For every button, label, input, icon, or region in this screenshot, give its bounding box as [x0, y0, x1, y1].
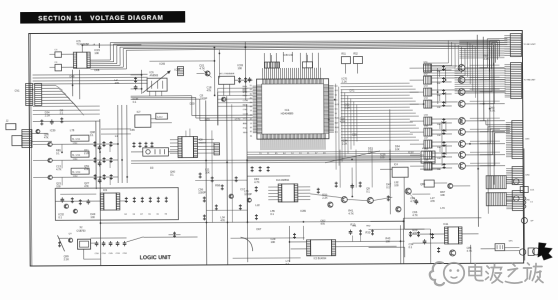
svg-text:0.1: 0.1: [133, 100, 137, 104]
svg-text:0.1: 0.1: [170, 172, 174, 176]
svg-text:IC89: IC89: [300, 209, 306, 213]
svg-text:2.2K: 2.2K: [45, 113, 51, 117]
svg-text:47K: 47K: [115, 81, 120, 85]
svg-text:IC39: IC39: [50, 128, 56, 132]
svg-text:4.7K: 4.7K: [199, 66, 205, 70]
svg-text:D49: D49: [70, 74, 75, 78]
svg-text:R30: R30: [365, 230, 370, 234]
svg-text:RES: RES: [243, 86, 248, 88]
svg-text:2.2K: 2.2K: [322, 196, 328, 200]
svg-text:0.1: 0.1: [386, 185, 390, 189]
svg-text:2.2K: 2.2K: [342, 79, 348, 83]
svg-text:100: 100: [237, 66, 242, 70]
svg-text:TO PA UNIT: TO PA UNIT: [524, 78, 537, 81]
svg-text:IC44: IC44: [174, 68, 180, 72]
svg-text:47K: 47K: [430, 199, 435, 203]
svg-text:RT1 TRIMMER: RT1 TRIMMER: [220, 73, 235, 75]
svg-text:D67: D67: [256, 227, 261, 231]
svg-text:0.1: 0.1: [56, 151, 60, 155]
svg-text:SECTION 11 VOLTAGE DIAGRAM: SECTION 11 VOLTAGE DIAGRAM: [38, 15, 163, 23]
svg-text:SCK: SCK: [335, 104, 340, 106]
svg-text:47K: 47K: [84, 167, 89, 171]
svg-text:OSC: OSC: [243, 109, 248, 111]
svg-text:10K: 10K: [437, 83, 441, 85]
svg-text:0.1: 0.1: [409, 245, 413, 249]
svg-text:2.2K: 2.2K: [483, 57, 489, 61]
svg-text:10K: 10K: [386, 239, 391, 243]
svg-text:47K: 47K: [220, 218, 225, 222]
svg-text:1254: 1254: [72, 143, 78, 145]
svg-text:2.2K: 2.2K: [342, 141, 348, 145]
svg-text:0.1: 0.1: [270, 212, 274, 216]
svg-text:COM: COM: [243, 114, 248, 116]
svg-text:Q55: Q55: [205, 117, 210, 121]
svg-text:10K: 10K: [437, 135, 441, 137]
svg-text:C17: C17: [240, 187, 245, 191]
svg-text:4.7K: 4.7K: [348, 211, 354, 215]
svg-text:2.2K: 2.2K: [64, 257, 70, 261]
svg-text:1000P: 1000P: [244, 192, 252, 196]
svg-text:100: 100: [90, 215, 95, 219]
svg-text:C45 C46: C45 C46: [283, 54, 293, 57]
svg-text:4.7K: 4.7K: [467, 249, 473, 253]
svg-text:0.1: 0.1: [368, 149, 372, 153]
svg-text:1000P: 1000P: [198, 190, 206, 194]
svg-text:C65: C65: [130, 128, 135, 132]
svg-text:1000P: 1000P: [200, 96, 208, 100]
svg-text:10K: 10K: [395, 147, 400, 151]
svg-text:10K: 10K: [271, 240, 276, 244]
svg-text:10K: 10K: [437, 147, 441, 149]
svg-text:RL 1254: RL 1254: [72, 172, 81, 174]
svg-text:1254: 1254: [73, 176, 79, 178]
svg-text:10K: 10K: [437, 124, 441, 126]
svg-text:D3: D3: [150, 166, 154, 170]
svg-text:4.7K: 4.7K: [490, 108, 496, 112]
svg-text:L22: L22: [255, 203, 260, 207]
svg-text:10K: 10K: [437, 169, 441, 171]
svg-text:IC69: IC69: [159, 62, 165, 66]
svg-text:D20: D20: [190, 102, 195, 106]
svg-text:SO: SO: [335, 90, 338, 92]
svg-text:Q86: Q86: [420, 182, 425, 186]
svg-text:R10: R10: [350, 223, 355, 227]
svg-text:RL 1254: RL 1254: [72, 139, 81, 141]
svg-text:IC2 AN6564: IC2 AN6564: [276, 179, 290, 182]
svg-text:CN1: CN1: [15, 90, 20, 93]
svg-text:L74: L74: [440, 206, 445, 210]
svg-text:S-812: S-812: [157, 117, 164, 119]
svg-text:10K: 10K: [437, 107, 441, 109]
svg-text:4.7K: 4.7K: [254, 180, 260, 184]
svg-text:IC3 BU4094: IC3 BU4094: [314, 258, 327, 260]
svg-text:100: 100: [56, 184, 61, 188]
svg-text:IC1: IC1: [285, 108, 290, 112]
svg-text:D68: D68: [94, 68, 99, 72]
svg-text:CSB750: CSB750: [76, 230, 86, 233]
svg-text:IC13: IC13: [408, 150, 414, 154]
svg-text:10K: 10K: [440, 193, 445, 197]
svg-text:0.1: 0.1: [90, 133, 94, 137]
svg-text:1254: 1254: [73, 159, 79, 161]
svg-text:R52: R52: [353, 53, 358, 56]
svg-text:2.2K: 2.2K: [345, 105, 351, 109]
svg-text:IC11: IC11: [443, 223, 449, 226]
svg-text:47K: 47K: [320, 222, 325, 226]
svg-text:10K: 10K: [437, 158, 441, 160]
svg-text:0.1: 0.1: [60, 111, 64, 115]
svg-text:4.7K: 4.7K: [340, 119, 346, 123]
svg-text:10K: 10K: [205, 170, 210, 174]
svg-text:COM: COM: [243, 100, 248, 102]
svg-text:0.1: 0.1: [58, 215, 62, 219]
svg-text:L78: L78: [70, 128, 75, 132]
svg-text:47K: 47K: [44, 135, 49, 139]
svg-text:R98: R98: [215, 183, 220, 187]
svg-text:IC72: IC72: [235, 117, 241, 121]
svg-text:100: 100: [380, 155, 385, 159]
svg-text:LOGIC UNIT: LOGIC UNIT: [140, 255, 172, 261]
svg-text:C25: C25: [352, 133, 357, 137]
svg-text:TO RF UNIT: TO RF UNIT: [523, 44, 536, 46]
svg-text:4.7K: 4.7K: [56, 167, 62, 171]
svg-text:47K: 47K: [84, 184, 89, 188]
svg-text:47K: 47K: [207, 88, 212, 92]
svg-text:0.1: 0.1: [366, 189, 370, 193]
svg-text:10K: 10K: [437, 95, 441, 97]
svg-text:10K: 10K: [94, 51, 99, 55]
svg-text:0.1: 0.1: [286, 262, 290, 266]
svg-text:AN6562: AN6562: [150, 74, 159, 77]
svg-text:100: 100: [394, 183, 399, 187]
svg-text:HD404889: HD404889: [281, 111, 294, 115]
svg-text:RL 1254: RL 1254: [72, 155, 81, 157]
svg-text:R51: R51: [341, 53, 346, 56]
svg-text:47K: 47K: [412, 231, 417, 235]
svg-text:10K: 10K: [437, 71, 441, 73]
svg-text:D71: D71: [350, 89, 355, 93]
svg-text:4.7K: 4.7K: [412, 213, 418, 217]
svg-text:RES: RES: [243, 95, 248, 97]
